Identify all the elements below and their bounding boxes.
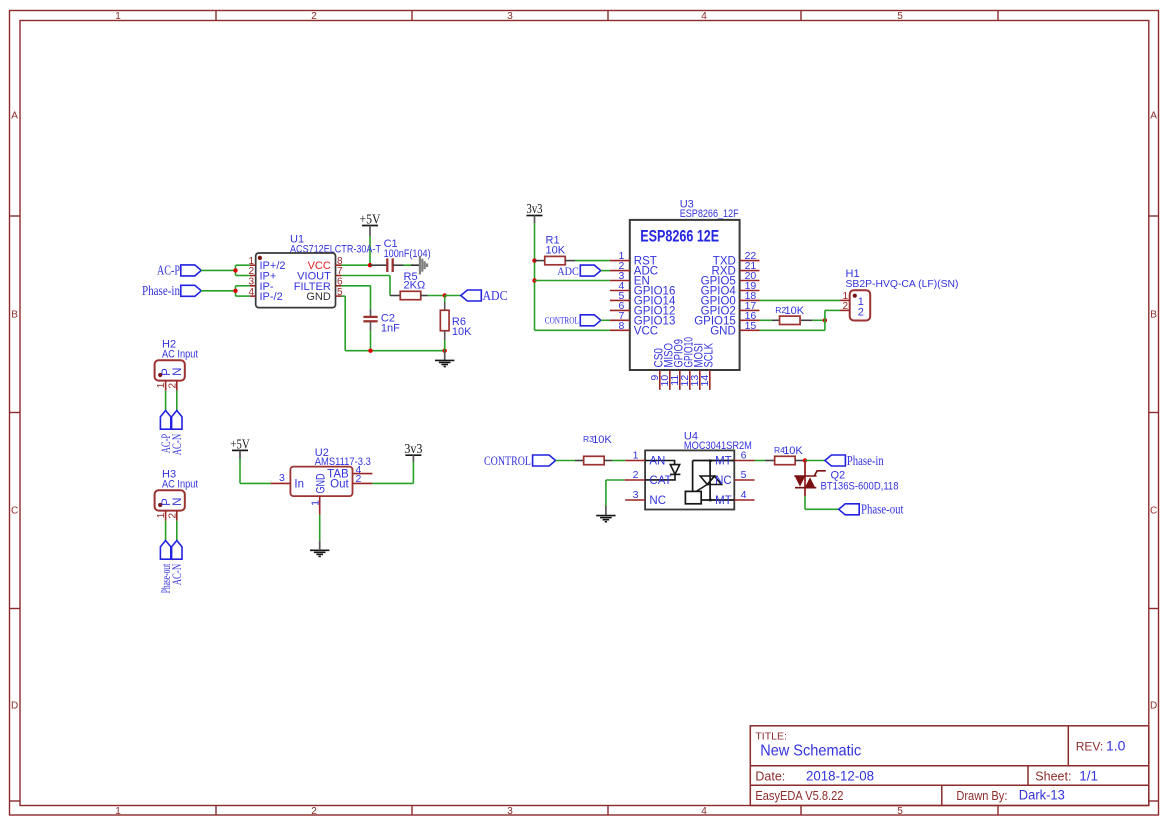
wire R5 to node <box>428 295 445 297</box>
ground below R6 <box>444 351 446 360</box>
wire U2 gnd <box>319 515 321 541</box>
capacitor C1 <box>370 264 387 266</box>
junction R6/bus <box>443 349 447 353</box>
svg-text:3v3: 3v3 <box>404 441 422 456</box>
svg-text:1: 1 <box>115 806 121 817</box>
svg-text:1: 1 <box>115 11 121 22</box>
wire EN <box>535 280 610 282</box>
svg-text:MT: MT <box>715 495 732 507</box>
U1 pin1 dot <box>258 256 262 260</box>
wire Out to 3v3 <box>372 482 413 484</box>
U4 internal detector box <box>685 491 701 503</box>
svg-text:NC: NC <box>649 495 666 507</box>
connector H3 body <box>155 490 185 510</box>
U3 left pin stubs <box>610 260 630 262</box>
svg-text:D: D <box>11 701 18 712</box>
U4 internal triac <box>693 460 735 462</box>
svg-text:Phase-out: Phase-out <box>861 502 904 517</box>
junction AC-P <box>233 268 237 272</box>
junction C2/bus <box>368 349 372 353</box>
svg-text:+5V: +5V <box>230 437 250 452</box>
H2 pin1 dot <box>158 373 162 377</box>
port AC-P <box>160 411 170 430</box>
wire 3v3 rail <box>534 223 536 330</box>
svg-text:VCC: VCC <box>634 325 658 337</box>
junction R2 node <box>823 318 827 322</box>
svg-text:3: 3 <box>507 11 513 22</box>
U4 left pin stubs <box>625 460 645 462</box>
svg-text:Phase-in: Phase-in <box>847 453 884 468</box>
svg-text:8: 8 <box>618 320 624 332</box>
connector H2 body <box>155 360 185 380</box>
wire to Phase-in port <box>805 460 825 462</box>
svg-text:D: D <box>1150 701 1157 712</box>
svg-text:Phase-in: Phase-in <box>142 283 180 298</box>
svg-text:10K: 10K <box>546 244 566 256</box>
svg-text:C: C <box>11 506 18 517</box>
junction VCC node <box>368 263 372 267</box>
U3 bottom pin stubs <box>659 370 661 390</box>
svg-text:4: 4 <box>741 489 747 501</box>
svg-text:New Schematic: New Schematic <box>760 742 861 759</box>
ground (gray, rotated) at C1 <box>419 256 421 275</box>
svg-text:2KΩ: 2KΩ <box>404 280 426 292</box>
svg-text:N: N <box>172 368 184 376</box>
svg-text:AC-N: AC-N <box>169 563 184 585</box>
junction ADC node <box>443 293 447 297</box>
U4 internal LED diode <box>645 461 675 465</box>
wire GND pin5 to bus <box>342 295 346 297</box>
wire GPIO0 to H1 pin1 <box>760 299 840 301</box>
wire Q2 to Phase-out <box>804 496 806 509</box>
port ADC (at R5) <box>461 290 482 301</box>
wire node to U3 GND <box>760 329 825 331</box>
svg-text:Sheet:: Sheet: <box>1035 770 1071 784</box>
svg-text:10K: 10K <box>785 305 805 317</box>
wires H2 to ports <box>165 391 167 411</box>
junction EN branch <box>532 278 536 282</box>
wire C1 to gnd <box>404 264 412 266</box>
svg-text:CONTROL: CONTROL <box>484 454 531 468</box>
svg-text:1/1: 1/1 <box>1079 768 1098 783</box>
H3 pin stubs <box>165 511 167 521</box>
svg-text:2: 2 <box>167 512 178 518</box>
port AC-N <box>172 541 182 560</box>
U4 right pin stubs <box>734 460 754 462</box>
U2 pin3 <box>271 482 291 484</box>
svg-text:4: 4 <box>248 287 254 298</box>
svg-text:A: A <box>1150 111 1157 122</box>
svg-text:2: 2 <box>167 382 178 388</box>
svg-text:ESP8266_12F: ESP8266_12F <box>680 208 739 220</box>
svg-text:AC Input: AC Input <box>162 348 198 360</box>
svg-text:B: B <box>1150 310 1157 321</box>
svg-text:Out: Out <box>330 478 349 490</box>
ground below CAT <box>596 515 615 517</box>
svg-text:3: 3 <box>279 472 285 484</box>
svg-text:IP-/2: IP-/2 <box>260 291 283 303</box>
wire node to ADC port <box>445 295 461 297</box>
H3 pin1 dot <box>158 503 162 507</box>
svg-text:In: In <box>294 478 304 490</box>
svg-text:AN: AN <box>649 456 665 468</box>
resistor R5 <box>390 295 400 297</box>
svg-text:2018-12-08: 2018-12-08 <box>806 768 874 783</box>
junction Phase-in <box>233 289 237 293</box>
svg-text:AC-P: AC-P <box>157 263 180 278</box>
svg-text:2: 2 <box>311 806 317 817</box>
wire R1 to RST <box>575 260 610 262</box>
svg-text:3: 3 <box>507 806 513 817</box>
svg-text:2: 2 <box>633 469 639 481</box>
svg-text:2: 2 <box>311 11 317 22</box>
svg-text:TITLE:: TITLE: <box>755 730 787 742</box>
title block <box>750 726 1149 806</box>
svg-text:GND: GND <box>316 474 328 494</box>
svg-text:NC: NC <box>715 475 732 487</box>
svg-text:REV:: REV: <box>1076 739 1104 753</box>
IC U3 body <box>630 220 740 370</box>
svg-text:10K: 10K <box>452 326 472 338</box>
port Phase-out (right) <box>839 504 860 515</box>
svg-text:ESP8266 12E: ESP8266 12E <box>640 226 719 245</box>
wire +5V to U2 In <box>239 459 241 484</box>
svg-text:5: 5 <box>897 806 903 817</box>
wire C2 to bus <box>370 331 372 351</box>
wire VCC pin8 (U3) <box>535 329 610 331</box>
svg-text:5: 5 <box>897 11 903 22</box>
U2 GND pin1 <box>319 496 321 515</box>
IC U4 body <box>645 450 734 509</box>
wire CONTROL to R3 <box>556 460 575 462</box>
U1 left pin stubs <box>250 264 256 266</box>
svg-text:5: 5 <box>741 469 747 481</box>
svg-text:Drawn By:: Drawn By: <box>956 789 1007 803</box>
IC U2 body <box>290 467 352 497</box>
svg-text:+5V: +5V <box>360 211 381 226</box>
svg-text:GND: GND <box>306 291 331 303</box>
svg-text:MT: MT <box>715 456 732 468</box>
svg-text:CAT: CAT <box>649 475 671 487</box>
junction 3v3/R1 <box>532 258 536 262</box>
wire +5V down to VCC node <box>369 236 371 265</box>
ground below U2 <box>310 549 329 551</box>
svg-text:14: 14 <box>699 375 711 387</box>
svg-text:1: 1 <box>310 500 322 506</box>
wire CAT to gnd <box>606 479 625 481</box>
wires H3 to ports <box>165 521 167 541</box>
svg-text:1.0: 1.0 <box>1106 737 1126 753</box>
port Phase-out <box>160 541 170 560</box>
wire VIOUT to R5 <box>342 275 391 277</box>
svg-text:2: 2 <box>858 306 864 318</box>
svg-text:100nF(104): 100nF(104) <box>384 248 431 260</box>
resistor R6 <box>444 296 446 303</box>
svg-text:1: 1 <box>156 382 167 388</box>
connector H1 body <box>850 290 871 320</box>
svg-text:BT136S-600D,118: BT136S-600D,118 <box>821 481 899 493</box>
svg-text:ADC: ADC <box>483 288 508 303</box>
U2 Out pin2 <box>353 482 373 484</box>
svg-text:Dark-13: Dark-13 <box>1019 787 1065 803</box>
svg-text:10K: 10K <box>783 445 803 457</box>
svg-text:2: 2 <box>842 301 848 312</box>
svg-text:3v3: 3v3 <box>527 201 543 216</box>
wire VCC pin8 <box>342 264 371 266</box>
svg-text:P: P <box>161 498 173 506</box>
ruler ticks <box>215 11 217 21</box>
svg-text:C: C <box>1150 506 1157 517</box>
IC U1 body <box>256 253 336 308</box>
wire FILTER to C2 <box>342 285 371 287</box>
H2 pin stubs <box>165 381 167 391</box>
wire node to H1 pin2 <box>824 310 826 330</box>
svg-text:4: 4 <box>701 806 707 817</box>
svg-text:A: A <box>11 111 18 122</box>
H1 pin1 dot <box>853 294 857 298</box>
port AC-N <box>172 411 182 430</box>
svg-text:1: 1 <box>633 450 639 462</box>
H1 pin stubs <box>840 299 850 301</box>
capacitor C2 <box>363 316 377 318</box>
wire gnd bus <box>345 350 445 352</box>
svg-text:ADC: ADC <box>557 266 579 278</box>
svg-text:EasyEDA V5.8.22: EasyEDA V5.8.22 <box>755 789 843 803</box>
svg-text:GND: GND <box>710 325 736 337</box>
svg-text:1: 1 <box>156 512 167 518</box>
U1 right pin stubs <box>336 264 342 266</box>
svg-text:CONTROL: CONTROL <box>545 316 579 326</box>
svg-text:10K: 10K <box>592 434 612 446</box>
port Phase-in (right) <box>825 455 846 466</box>
U4 internal gate line <box>695 485 707 492</box>
svg-text:AC Input: AC Input <box>162 478 198 490</box>
svg-text:15: 15 <box>745 320 757 332</box>
svg-text:3: 3 <box>633 489 639 501</box>
svg-text:N: N <box>172 498 184 506</box>
svg-text:4: 4 <box>701 11 707 22</box>
svg-text:B: B <box>11 310 18 321</box>
junction R4/Q2 <box>803 458 807 462</box>
svg-text:P: P <box>161 368 173 376</box>
svg-text:6: 6 <box>741 450 747 462</box>
U2 TAB pin4 <box>353 473 373 475</box>
svg-text:Date:: Date: <box>755 769 785 783</box>
wire Phase-in to U1 <box>201 290 236 292</box>
U3 right pin stubs <box>740 260 760 262</box>
wire AC-P to U1 <box>201 269 236 271</box>
svg-text:1nF: 1nF <box>381 322 400 334</box>
svg-text:SCLK: SCLK <box>704 343 716 368</box>
svg-text:SB2P-HVQ-CA (LF)(SN): SB2P-HVQ-CA (LF)(SN) <box>846 278 959 290</box>
svg-text:2: 2 <box>355 473 361 485</box>
svg-text:AC-N: AC-N <box>169 433 184 455</box>
